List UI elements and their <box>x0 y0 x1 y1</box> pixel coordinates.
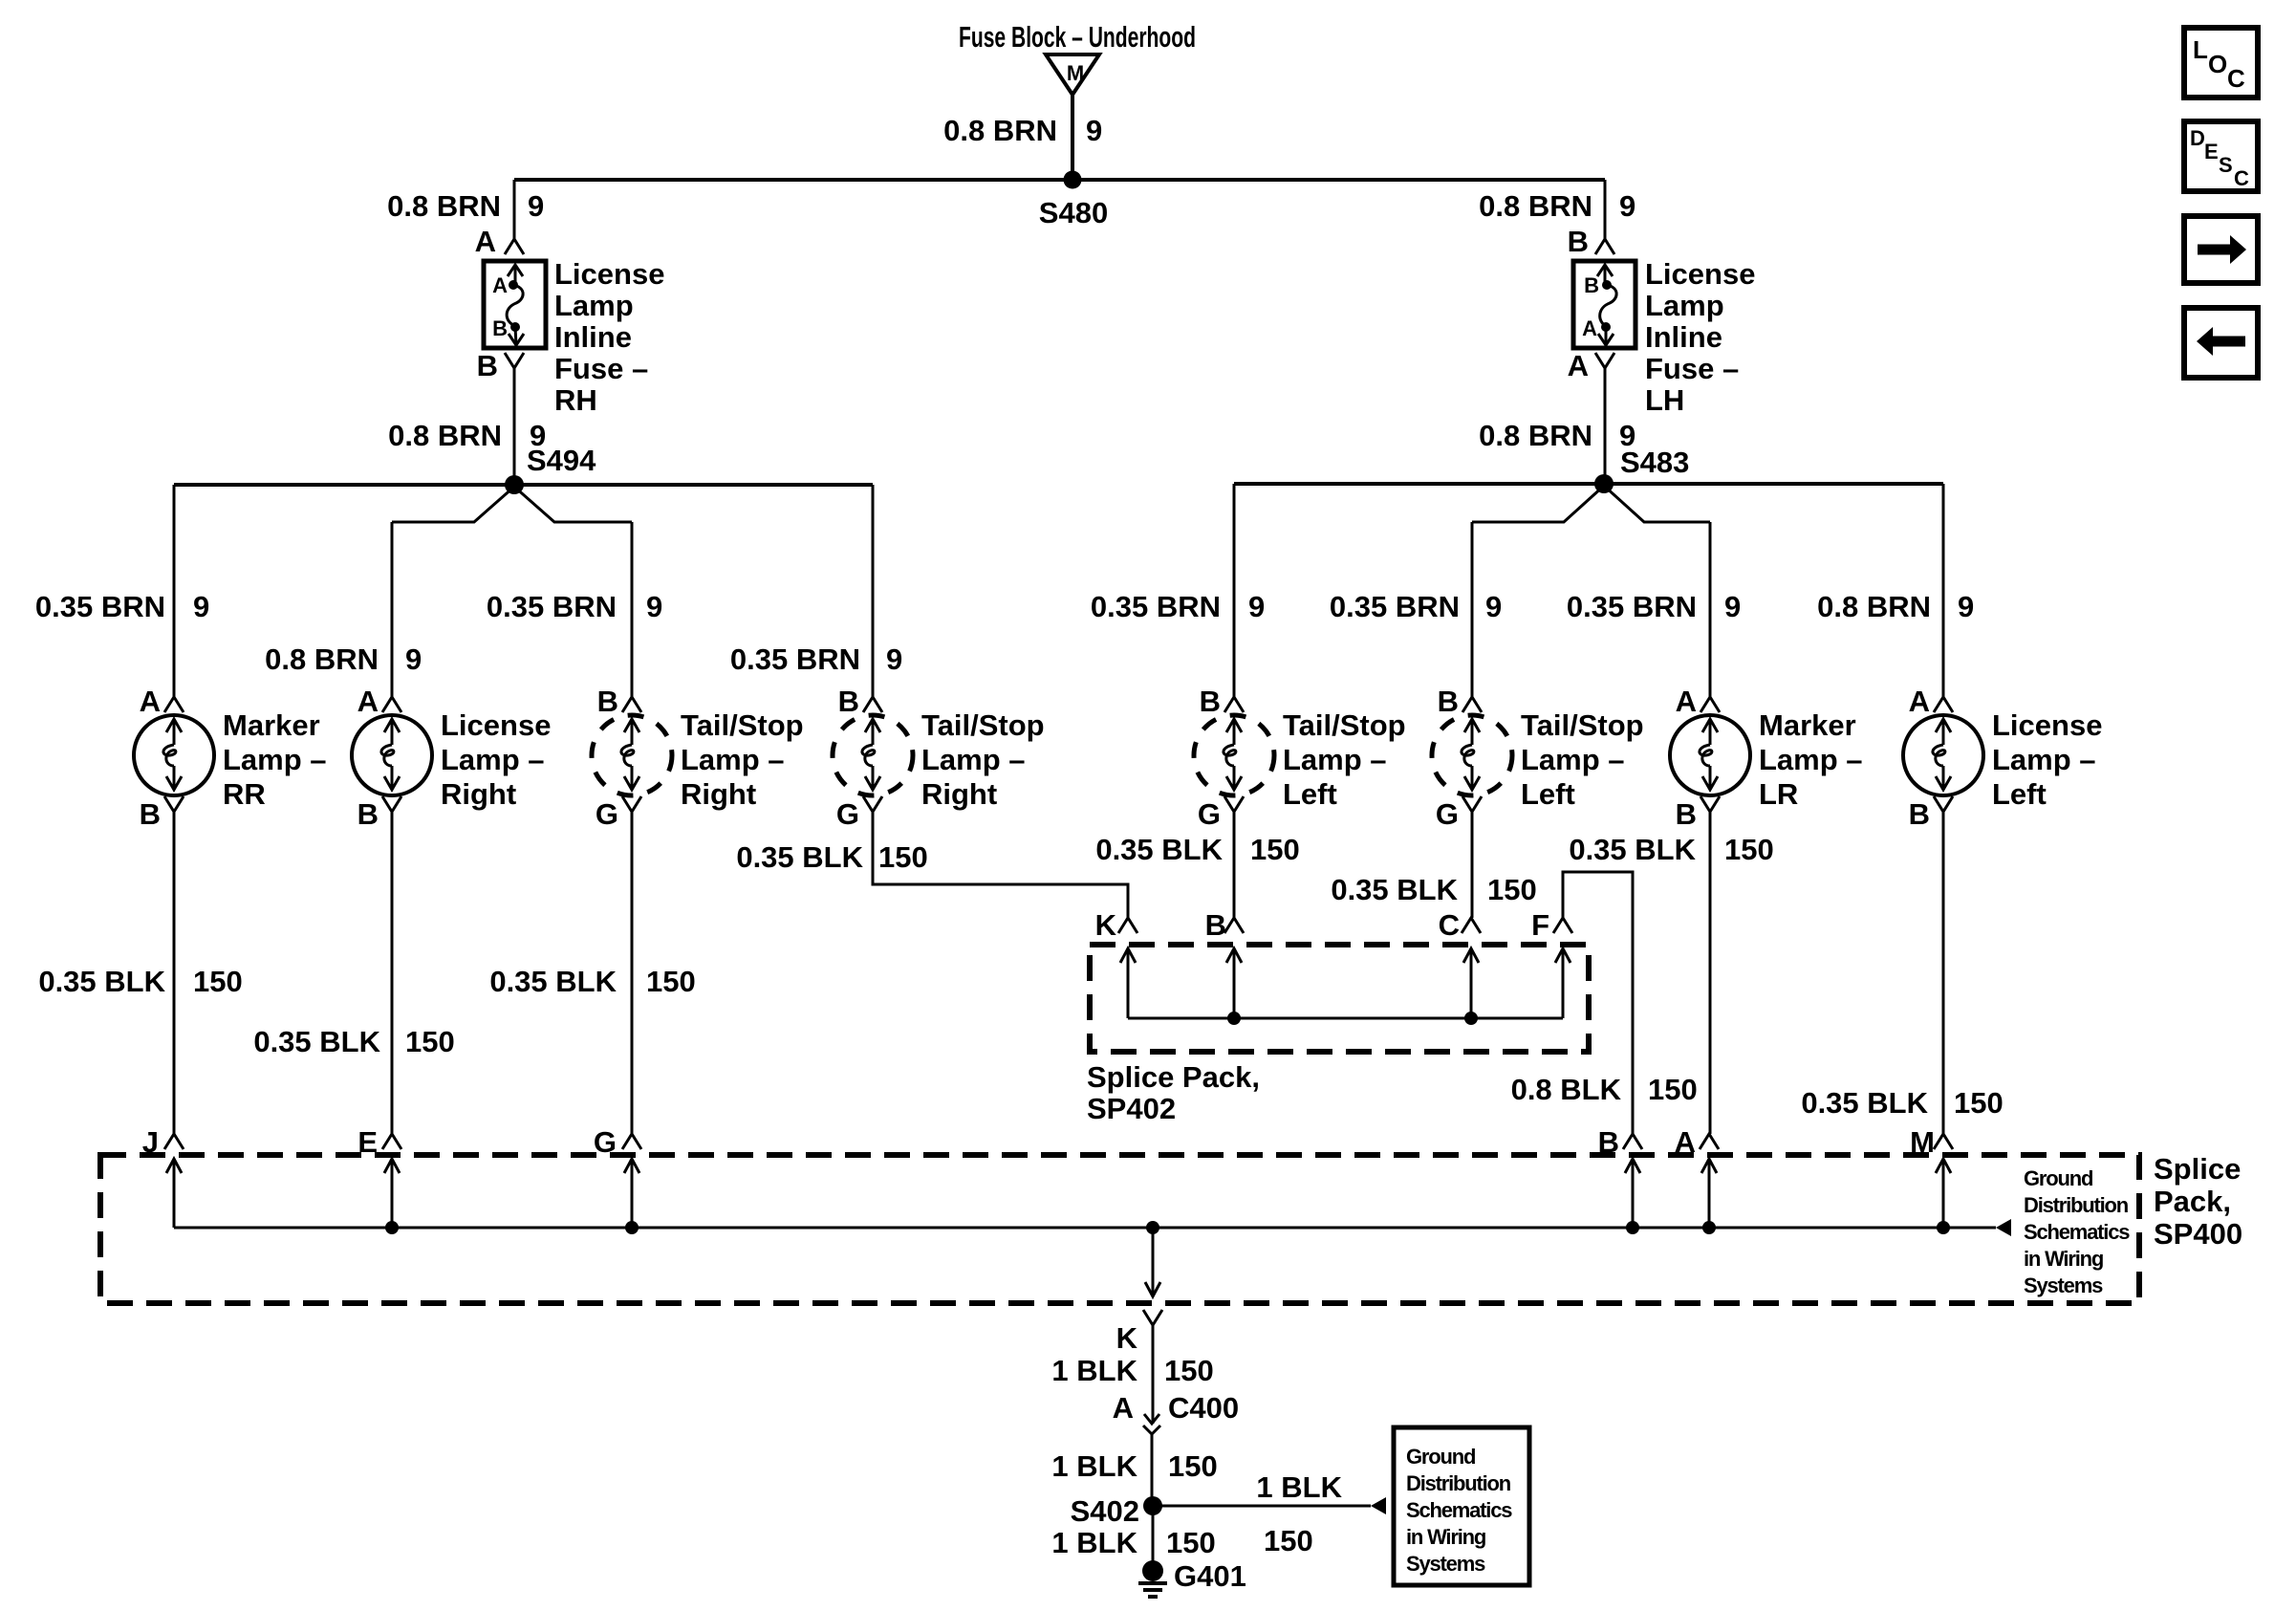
wire C400 to S402 <box>1151 1434 1154 1506</box>
wire to license lamp left <box>1942 484 1945 697</box>
svg-text:LR: LR <box>1759 777 1798 811</box>
label 1 BLK 150 (S402 to G401) <box>1051 1526 1215 1559</box>
svg-text:S483: S483 <box>1620 446 1689 479</box>
label Tail/Stop Lamp - Left 1 <box>1283 708 1406 811</box>
pin E of SP400 <box>357 1125 401 1159</box>
svg-text:Right: Right <box>921 777 997 811</box>
splice S480 <box>1039 171 1108 230</box>
label 1 BLK 150 (C400 to S402) <box>1051 1449 1217 1483</box>
svg-text:Distribution: Distribution <box>1406 1471 1511 1495</box>
svg-text:Schematics: Schematics <box>2024 1220 2130 1244</box>
svg-text:0.8 BRN: 0.8 BRN <box>387 189 501 223</box>
svg-text:9: 9 <box>528 189 544 223</box>
svg-text:Tail/Stop: Tail/Stop <box>921 708 1045 742</box>
svg-text:9: 9 <box>1958 590 1974 623</box>
lamp Tail/Stop Lamp - Right 2 <box>833 715 913 795</box>
svg-text:LH: LH <box>1645 383 1684 417</box>
SP400 junction dot x=1788 <box>1702 1221 1716 1234</box>
lamp Tail/Stop Lamp - Left 1 <box>1194 715 1274 795</box>
svg-text:0.35 BRN: 0.35 BRN <box>35 590 165 623</box>
label 0.35 BRN 9 (tail/stop right 2) <box>730 642 902 676</box>
svg-text:0.35 BRN: 0.35 BRN <box>1330 590 1460 623</box>
svg-text:C: C <box>2234 166 2249 190</box>
svg-text:1 BLK: 1 BLK <box>1051 1354 1137 1387</box>
svg-text:C: C <box>2227 64 2245 93</box>
svg-text:A: A <box>1676 685 1697 718</box>
wire marker LR to SP400 A <box>1709 812 1712 1134</box>
pin B of Marker Lamp - LR <box>1676 796 1720 831</box>
SP400 internal arrow G <box>624 1159 639 1228</box>
pin K of SP402 <box>1095 908 1137 942</box>
label Marker Lamp - LR <box>1759 708 1863 811</box>
svg-text:in Wiring: in Wiring <box>2024 1247 2103 1271</box>
svg-text:150: 150 <box>646 965 696 998</box>
label 0.35 BRN 9 (tail/stop right 1) <box>487 590 662 623</box>
svg-text:0.35 BRN: 0.35 BRN <box>1091 590 1221 623</box>
label 0.35 BLK 150 (license left ground) <box>1801 1086 2003 1120</box>
label 0.8 BRN 9 (fuse LH to S483) <box>1479 419 1635 452</box>
pin B of Tail/Stop Lamp - Left 1 <box>1200 685 1244 718</box>
wire tail/stop left 2 to SP402 C <box>1471 812 1474 918</box>
label License Lamp Inline Fuse - LH <box>1645 257 1755 417</box>
wire tail/stop left 1 to SP402 B <box>1233 812 1236 918</box>
label 0.35 BRN 9 (tail/stop left 2) <box>1330 590 1502 623</box>
svg-text:B: B <box>1598 1125 1619 1159</box>
svg-text:B: B <box>1676 797 1697 831</box>
wire S483 horizontal bus <box>1234 482 1943 486</box>
svg-text:Schematics: Schematics <box>1406 1498 1512 1522</box>
svg-text:0.35 BLK: 0.35 BLK <box>253 1025 380 1058</box>
pin B of fuse LH <box>1568 225 1614 258</box>
label 0.35 BLK 150 (marker RR ground) <box>38 965 242 998</box>
wire S480 to fuse LH <box>1604 180 1607 239</box>
svg-text:150: 150 <box>405 1025 455 1058</box>
svg-text:9: 9 <box>646 590 662 623</box>
fuse block - underhood label <box>959 20 1196 54</box>
svg-text:1 BLK: 1 BLK <box>1051 1449 1137 1483</box>
svg-text:Splice: Splice <box>2154 1152 2241 1186</box>
svg-text:M: M <box>1910 1125 1935 1159</box>
svg-text:G: G <box>596 797 618 831</box>
SP400 internal bus <box>174 1227 1996 1230</box>
svg-text:B: B <box>1200 685 1221 718</box>
pin G of Tail/Stop Lamp - Left 1 <box>1198 796 1244 831</box>
wire to tail/stop lamp left 2 <box>1471 522 1474 697</box>
svg-text:A: A <box>475 225 496 258</box>
svg-text:G: G <box>836 797 859 831</box>
label 1 BLK 150 (S402 branch) <box>1256 1470 1342 1557</box>
svg-text:K: K <box>1116 1321 1138 1355</box>
svg-text:Ground: Ground <box>2024 1166 2092 1190</box>
svg-text:A: A <box>492 273 508 297</box>
svg-text:Marker: Marker <box>223 708 320 742</box>
SP402 internal arrow C <box>1463 948 1479 1018</box>
pin C of SP402 <box>1439 908 1481 942</box>
wire to license lamp right <box>391 522 394 697</box>
pin B of fuse RH <box>477 349 524 382</box>
wire SP402 F to SP400 B <box>1563 872 1633 1134</box>
svg-text:B: B <box>597 685 618 718</box>
SP400 junction dot x=661 <box>625 1221 639 1234</box>
svg-text:G: G <box>594 1125 617 1159</box>
svg-text:B: B <box>1909 797 1930 831</box>
svg-text:Lamp –: Lamp – <box>1283 743 1387 776</box>
lamp Marker Lamp - LR <box>1670 715 1750 795</box>
svg-text:S494: S494 <box>527 444 596 477</box>
svg-text:9: 9 <box>405 642 422 676</box>
label 0.35 BLK 150 (license right ground) <box>253 1025 454 1058</box>
svg-text:Right: Right <box>441 777 516 811</box>
svg-text:Marker: Marker <box>1759 708 1856 742</box>
pin B of SP400 <box>1598 1125 1642 1159</box>
SP402 internal arrow F <box>1555 948 1570 1018</box>
pin A of Marker Lamp - RR <box>140 685 184 718</box>
svg-text:A: A <box>1113 1391 1134 1425</box>
label 0.8 BRN 9 (license left) <box>1817 590 1974 623</box>
next page arrow box <box>2184 216 2258 283</box>
svg-text:9: 9 <box>1086 114 1102 147</box>
svg-text:150: 150 <box>1724 833 1774 866</box>
wire marker RR to SP400 J <box>173 812 176 1134</box>
svg-text:G401: G401 <box>1174 1559 1246 1593</box>
lamp Marker Lamp - RR <box>134 715 214 795</box>
wire S480 to fuse RH <box>513 180 516 239</box>
label 0.8 BRN 9 (fuse RH to S494) <box>388 419 546 452</box>
svg-text:9: 9 <box>193 590 209 623</box>
svg-text:150: 150 <box>1166 1526 1216 1559</box>
ground distribution reference box <box>1394 1427 1529 1585</box>
svg-text:Splice Pack,: Splice Pack, <box>1087 1060 1260 1094</box>
svg-text:B: B <box>140 797 161 831</box>
label Tail/Stop Lamp - Right 2 <box>921 708 1045 811</box>
svg-text:0.35 BLK: 0.35 BLK <box>489 965 617 998</box>
svg-text:Distribution: Distribution <box>2024 1193 2129 1217</box>
svg-text:B: B <box>1584 273 1599 297</box>
label Marker Lamp - RR <box>223 708 327 811</box>
svg-text:Tail/Stop: Tail/Stop <box>681 708 804 742</box>
wire fuse block to S480 <box>1071 95 1074 180</box>
wire S483 fork to marker LR column <box>1604 486 1710 522</box>
svg-text:Fuse Block – Underhood: Fuse Block – Underhood <box>959 20 1196 54</box>
svg-text:B: B <box>1205 908 1226 942</box>
wire S402 off-page branch <box>1153 1505 1371 1508</box>
svg-text:150: 150 <box>1954 1086 2004 1120</box>
SP402 junction dot C <box>1464 1012 1478 1025</box>
svg-text:Left: Left <box>1992 777 2047 811</box>
label Ground Distribution Schematics (SP400) <box>2024 1166 2130 1297</box>
pin A of Marker Lamp - LR <box>1676 685 1720 718</box>
svg-text:Lamp –: Lamp – <box>223 743 327 776</box>
SP400 internal arrow A <box>1701 1159 1717 1228</box>
svg-text:0.35 BLK: 0.35 BLK <box>736 840 863 874</box>
DESC icon box <box>2184 121 2258 191</box>
SP400 bus off-page arrow <box>1996 1219 2011 1236</box>
wire S494 horizontal bus <box>174 483 873 487</box>
pin F of SP402 <box>1531 908 1572 942</box>
wire S494 fork to tail/stop right 1 column <box>514 487 632 522</box>
SP402 junction dot B <box>1227 1012 1241 1025</box>
wire to marker lamp RR <box>173 485 176 697</box>
svg-text:Tail/Stop: Tail/Stop <box>1521 708 1644 742</box>
svg-text:0.8 BLK: 0.8 BLK <box>1511 1073 1622 1106</box>
pin A of fuse RH <box>475 225 524 258</box>
svg-text:A: A <box>1568 349 1589 382</box>
label 0.35 BLK 150 (tail/stop right 1 ground) <box>489 965 695 998</box>
svg-text:150: 150 <box>1168 1449 1218 1483</box>
wire to marker lamp LR <box>1709 522 1712 697</box>
svg-text:0.35 BRN: 0.35 BRN <box>730 642 860 676</box>
svg-text:RR: RR <box>223 777 266 811</box>
svg-text:Lamp –: Lamp – <box>921 743 1026 776</box>
svg-text:O: O <box>2208 50 2227 78</box>
svg-text:A: A <box>1582 316 1597 340</box>
pin G of Tail/Stop Lamp - Right 2 <box>836 796 882 831</box>
svg-text:License: License <box>554 257 664 291</box>
splice S494 <box>505 444 596 494</box>
svg-text:S480: S480 <box>1039 196 1108 229</box>
svg-text:A: A <box>1909 685 1930 718</box>
svg-text:Systems: Systems <box>2024 1274 2103 1297</box>
SP400 internal arrow M <box>1936 1159 1951 1228</box>
svg-text:License: License <box>1645 257 1755 291</box>
SP400 junction dot x=1206 <box>1146 1221 1159 1234</box>
pin G of Tail/Stop Lamp - Right 1 <box>596 796 641 831</box>
fuse block M triangle <box>1046 54 1099 95</box>
svg-text:B: B <box>838 685 859 718</box>
svg-text:150: 150 <box>1264 1524 1313 1557</box>
svg-text:License: License <box>1992 708 2102 742</box>
svg-text:A: A <box>140 685 161 718</box>
svg-text:RH: RH <box>554 383 597 417</box>
splice S483 <box>1594 446 1689 493</box>
lamp Tail/Stop Lamp - Left 2 <box>1432 715 1512 795</box>
wire S483 fork to tail/stop left 2 column <box>1472 486 1604 522</box>
SP402 internal arrow B <box>1226 948 1242 1018</box>
svg-text:0.8 BRN: 0.8 BRN <box>1479 419 1592 452</box>
svg-text:M: M <box>1067 61 1084 85</box>
svg-text:150: 150 <box>878 840 928 874</box>
SP400 internal arrow B <box>1625 1159 1640 1228</box>
label 0.8 BRN 9 (left drop) <box>387 189 544 223</box>
previous page arrow box <box>2184 308 2258 378</box>
svg-text:0.8 BRN: 0.8 BRN <box>1479 189 1592 223</box>
label License Lamp - Left <box>1992 708 2102 811</box>
svg-text:Fuse –: Fuse – <box>554 352 648 385</box>
svg-text:0.35 BLK: 0.35 BLK <box>1095 833 1223 866</box>
wire fuse RH to S494 <box>513 368 516 485</box>
svg-text:C400: C400 <box>1168 1391 1239 1425</box>
pin B of Tail/Stop Lamp - Right 2 <box>838 685 882 718</box>
SP400 exit arrow to K <box>1145 1228 1160 1296</box>
svg-text:Lamp: Lamp <box>1645 289 1724 322</box>
label Tail/Stop Lamp - Right 1 <box>681 708 804 811</box>
splice pack SP400 box <box>100 1155 2139 1303</box>
pin B of SP402 <box>1205 908 1244 942</box>
svg-text:150: 150 <box>1487 873 1537 906</box>
svg-text:B: B <box>1568 225 1589 258</box>
svg-text:E: E <box>2204 140 2219 163</box>
svg-text:E: E <box>357 1125 378 1159</box>
pin A of SP400 <box>1675 1125 1719 1159</box>
SP400 junction dot x=410 <box>385 1221 399 1234</box>
wire S402 to G401 <box>1152 1506 1155 1562</box>
svg-text:Lamp –: Lamp – <box>441 743 545 776</box>
lamp License Lamp - Left <box>1903 715 1983 795</box>
wire S494 fork to license lamp right column <box>392 487 514 522</box>
lamp License Lamp - Right <box>352 715 432 795</box>
svg-text:Fuse –: Fuse – <box>1645 352 1739 385</box>
SP400 junction dot x=2033 <box>1937 1221 1950 1234</box>
svg-text:150: 150 <box>1648 1073 1698 1106</box>
lamp Tail/Stop Lamp - Right 1 <box>592 715 672 795</box>
svg-text:B: B <box>1438 685 1459 718</box>
svg-text:150: 150 <box>193 965 243 998</box>
pin G of SP400 <box>594 1125 641 1159</box>
svg-text:Right: Right <box>681 777 756 811</box>
svg-text:L: L <box>2193 35 2208 64</box>
label Tail/Stop Lamp - Left 2 <box>1521 708 1644 811</box>
svg-text:SP402: SP402 <box>1087 1092 1176 1125</box>
svg-text:Inline: Inline <box>554 320 632 354</box>
svg-text:A: A <box>1675 1125 1696 1159</box>
label License Lamp - Right <box>441 708 551 811</box>
wire to tail/stop lamp left 1 <box>1233 484 1236 697</box>
svg-text:B: B <box>477 349 498 382</box>
label 0.35 BLK 150 (tail/stop left 1 ground) <box>1095 833 1299 866</box>
SP400 internal arrow E <box>384 1159 400 1228</box>
pin B of Tail/Stop Lamp - Left 2 <box>1438 685 1482 718</box>
svg-text:License: License <box>441 708 551 742</box>
svg-text:150: 150 <box>1250 833 1300 866</box>
wire S480 horizontal bus <box>514 178 1605 182</box>
svg-text:Lamp –: Lamp – <box>1759 743 1863 776</box>
svg-text:1 BLK: 1 BLK <box>1256 1470 1342 1504</box>
label 0.8 BRN 9 (right drop) <box>1479 189 1635 223</box>
wire fuse LH to S483 <box>1604 368 1607 484</box>
wire tail/stop right 2 to SP402 K <box>873 812 1128 918</box>
wire license left to SP400 M <box>1942 812 1945 1134</box>
splice S402 <box>1071 1494 1162 1528</box>
LOC icon box <box>2184 28 2258 98</box>
label Splice Pack, SP402 <box>1087 1060 1260 1125</box>
label Splice Pack, SP400 <box>2154 1152 2242 1251</box>
svg-text:0.35 BLK: 0.35 BLK <box>1801 1086 1928 1120</box>
svg-text:0.8 BRN: 0.8 BRN <box>265 642 379 676</box>
svg-text:0.35 BLK: 0.35 BLK <box>1331 873 1458 906</box>
svg-text:J: J <box>142 1125 159 1159</box>
pin A of License Lamp - Right <box>357 685 401 718</box>
ground G401 <box>1138 1559 1246 1597</box>
svg-text:D: D <box>2190 126 2205 150</box>
label 1 BLK 150 (K to C400) <box>1051 1354 1213 1387</box>
svg-text:150: 150 <box>1164 1354 1214 1387</box>
svg-text:0.35 BRN: 0.35 BRN <box>1567 590 1697 623</box>
pin A of License Lamp - Left <box>1909 685 1953 718</box>
label 0.35 BLK 150 (tail/stop left 2 ground) <box>1331 873 1536 906</box>
pin B of License Lamp - Right <box>357 796 401 831</box>
svg-text:9: 9 <box>1485 590 1502 623</box>
label 0.35 BRN 9 (marker LR) <box>1567 590 1741 623</box>
svg-text:Lamp: Lamp <box>554 289 634 322</box>
S402 off-page arrow <box>1371 1497 1386 1514</box>
svg-text:Lamp –: Lamp – <box>1521 743 1625 776</box>
pin M of SP400 <box>1910 1125 1953 1159</box>
pin A of fuse LH <box>1568 349 1614 382</box>
wire to tail/stop lamp right 1 <box>631 522 634 697</box>
svg-text:Left: Left <box>1521 777 1575 811</box>
label 0.8 BLK 150 (SP402 F to SP400 B) <box>1511 1073 1698 1106</box>
SP400 junction dot x=1708 <box>1626 1221 1639 1234</box>
svg-text:B: B <box>492 316 508 340</box>
fuse License Lamp Inline Fuse - LH <box>1573 261 1635 348</box>
svg-text:Pack,: Pack, <box>2154 1185 2231 1218</box>
label 0.8 BRN 9 (license right) <box>265 642 422 676</box>
pin B of License Lamp - Left <box>1909 796 1953 831</box>
fuse License Lamp Inline Fuse - RH <box>484 261 546 348</box>
svg-text:9: 9 <box>1619 189 1635 223</box>
pin J of SP400 <box>142 1125 184 1159</box>
svg-text:S402: S402 <box>1071 1494 1139 1528</box>
svg-text:0.35 BLK: 0.35 BLK <box>1569 833 1696 866</box>
svg-text:in Wiring: in Wiring <box>1406 1525 1485 1549</box>
svg-text:Tail/Stop: Tail/Stop <box>1283 708 1406 742</box>
wire to tail/stop lamp right 2 <box>872 485 875 697</box>
svg-text:S: S <box>2219 153 2233 177</box>
svg-text:K: K <box>1095 908 1117 942</box>
svg-text:0.8 BRN: 0.8 BRN <box>388 419 502 452</box>
svg-text:0.35 BRN: 0.35 BRN <box>487 590 617 623</box>
svg-text:Systems: Systems <box>1406 1552 1485 1576</box>
svg-text:0.8 BRN: 0.8 BRN <box>1817 590 1931 623</box>
splice pack SP402 box <box>1090 945 1589 1052</box>
svg-text:F: F <box>1531 908 1549 942</box>
svg-text:Ground: Ground <box>1406 1445 1475 1469</box>
pin B of Tail/Stop Lamp - Right 1 <box>597 685 641 718</box>
svg-text:9: 9 <box>1724 590 1741 623</box>
label 0.35 BRN 9 (marker RR) <box>35 590 209 623</box>
svg-text:G: G <box>1436 797 1459 831</box>
connector C400 pin A <box>1113 1325 1240 1434</box>
svg-text:Inline: Inline <box>1645 320 1722 354</box>
svg-text:9: 9 <box>886 642 902 676</box>
svg-text:Left: Left <box>1283 777 1337 811</box>
svg-text:G: G <box>1198 797 1221 831</box>
svg-text:A: A <box>357 685 379 718</box>
svg-text:Lamp –: Lamp – <box>1992 743 2096 776</box>
pin G of Tail/Stop Lamp - Left 2 <box>1436 796 1482 831</box>
svg-text:C: C <box>1439 908 1460 942</box>
wire tail/stop right 1 to SP400 G <box>631 812 634 1134</box>
svg-text:B: B <box>357 797 379 831</box>
pin B of Marker Lamp - RR <box>140 796 184 831</box>
SP402 internal arrow K <box>1120 948 1136 1018</box>
label 0.35 BLK 150 (tail/stop right 2 ground) <box>736 840 927 874</box>
svg-text:Lamp –: Lamp – <box>681 743 785 776</box>
svg-text:9: 9 <box>1248 590 1265 623</box>
label 0.35 BLK 150 (marker LR ground) <box>1569 833 1773 866</box>
SP402 internal bus <box>1128 1017 1563 1020</box>
label 0.35 BRN 9 (tail/stop left 1) <box>1091 590 1265 623</box>
label 0.8 BRN 9 (fuse block feed) <box>943 114 1102 147</box>
SP400 internal arrow J <box>166 1159 182 1228</box>
label License Lamp Inline Fuse - RH <box>554 257 664 417</box>
wire license right to SP400 E <box>391 812 394 1134</box>
svg-text:0.8 BRN: 0.8 BRN <box>943 114 1057 147</box>
svg-text:1 BLK: 1 BLK <box>1051 1526 1137 1559</box>
svg-text:SP400: SP400 <box>2154 1217 2242 1251</box>
svg-text:0.35 BLK: 0.35 BLK <box>38 965 165 998</box>
pin K of C400 harness <box>1116 1310 1162 1355</box>
